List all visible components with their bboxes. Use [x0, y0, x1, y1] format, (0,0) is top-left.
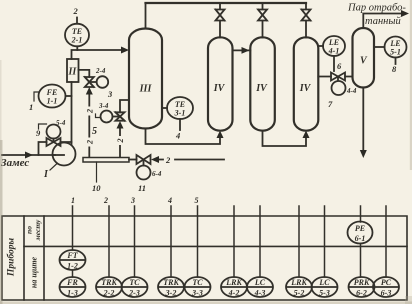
svg-text:TRK: TRK: [101, 278, 117, 287]
wire: tag bracket 1: [34, 92, 39, 101]
svg-text:2: 2: [73, 6, 79, 16]
signal stub 11: [385, 206, 387, 277]
vessel V: [353, 28, 375, 88]
column IV1: [208, 37, 233, 130]
instrument TC 3-3: [185, 277, 211, 297]
signal stub 6: [233, 206, 235, 277]
instrument bubbles in table: [60, 222, 400, 298]
svg-text:3: 3: [107, 89, 113, 99]
svg-text:IV: IV: [299, 83, 312, 94]
svg-text:2-3: 2-3: [128, 289, 140, 298]
instrument LRK 5-2: [286, 277, 312, 297]
instrument LC 5-3: [312, 277, 338, 297]
svg-text:месту: месту: [33, 219, 42, 241]
svg-text:4-1: 4-1: [328, 47, 340, 56]
svg-text:2: 2: [85, 109, 94, 114]
svg-text:1-1: 1-1: [47, 97, 58, 106]
svg-text:2: 2: [165, 155, 171, 165]
instrument FT 1-2: [60, 250, 86, 270]
svg-text:5-1: 5-1: [390, 48, 401, 57]
actuator 6-4: [143, 160, 145, 166]
temperature element TE 3-1: [162, 107, 167, 109]
svg-text:LRK: LRK: [290, 278, 307, 287]
actuator 3-4: [113, 116, 121, 118]
svg-text:IV: IV: [213, 83, 226, 94]
valve 5-4: [47, 138, 61, 146]
wire: steam supply line 2: [159, 159, 224, 161]
svg-text:Замес: Замес: [0, 157, 29, 169]
level element LE 4-1: [318, 45, 323, 47]
label rotated 2 on riser c: [117, 136, 124, 145]
svg-text:2: 2: [103, 196, 108, 205]
svg-text:PRK: PRK: [354, 278, 370, 287]
table frame: [2, 216, 407, 300]
svg-text:5-4: 5-4: [56, 119, 66, 127]
wire: IV2 bottom to IV3: [263, 131, 307, 146]
valve top 3: [302, 3, 311, 38]
svg-text:танный: танный: [365, 16, 401, 27]
level element LE 5-1: [374, 46, 385, 48]
svg-text:4-2: 4-2: [228, 289, 240, 298]
svg-text:3: 3: [130, 196, 135, 205]
node: feed arrow: [25, 152, 33, 159]
signal stub 5: [197, 206, 199, 277]
valve top 1: [216, 3, 225, 38]
svg-text:2-4: 2-4: [95, 67, 106, 75]
svg-text:Пар отрабо-: Пар отрабо-: [347, 3, 406, 14]
svg-text:TRK: TRK: [163, 278, 179, 287]
node: arrow into III: [121, 47, 129, 54]
signal stub 10: [360, 206, 362, 277]
wire: II top to column III: [72, 50, 125, 59]
svg-text:1: 1: [71, 196, 75, 205]
svg-text:TC: TC: [129, 278, 140, 287]
svg-text:LRK: LRK: [225, 278, 242, 287]
valve 2-4: [85, 77, 94, 87]
instrument FR 1-3: [60, 277, 86, 297]
actuator 4-4: [337, 77, 339, 81]
svg-text:на щите: на щите: [30, 256, 39, 288]
actuator 2-4: [89, 81, 96, 83]
svg-text:1: 1: [29, 102, 33, 112]
svg-text:4: 4: [175, 131, 180, 141]
wire: III top stem: [145, 3, 147, 29]
svg-text:5-2: 5-2: [294, 289, 305, 298]
svg-text:5: 5: [92, 126, 97, 137]
valve 6-4: [137, 155, 151, 164]
page edge shading: [0, 140, 3, 304]
svg-text:6-3: 6-3: [381, 289, 392, 298]
signal stub 8: [298, 206, 300, 277]
svg-text:TC: TC: [192, 278, 203, 287]
wire: IV3 to valve 4-4 to V: [318, 76, 352, 78]
wire: IV1 to IV2 arrow: [233, 49, 251, 51]
svg-text:3-1: 3-1: [174, 109, 186, 118]
valve 4-4: [331, 73, 345, 81]
wire: V top vapour out: [363, 14, 403, 29]
svg-text:11: 11: [138, 183, 146, 193]
wire: feed pipe Замес: [2, 154, 55, 156]
wire: steam riser to valve 2-4: [88, 95, 90, 158]
wire: III bottom to column IV1: [146, 129, 221, 145]
table divider col1: [23, 216, 25, 300]
instrument PRK 6-2: [349, 277, 375, 297]
svg-text:FT: FT: [66, 251, 78, 260]
svg-text:2-1: 2-1: [71, 36, 83, 45]
signal stub 2: [108, 206, 110, 277]
wire: tag bracket 9: [39, 124, 47, 129]
wire: leader to label 10: [96, 162, 98, 182]
steam manifold 10: [83, 158, 129, 163]
svg-text:10: 10: [92, 183, 101, 193]
svg-text:II: II: [68, 67, 78, 78]
svg-text:PE: PE: [355, 224, 365, 233]
wire: tag bracket 5: [96, 114, 101, 118]
pump I: [53, 143, 76, 166]
svg-text:PC: PC: [381, 278, 392, 287]
svg-text:6-4: 6-4: [152, 170, 162, 178]
svg-text:LC: LC: [318, 278, 330, 287]
svg-text:3-2: 3-2: [165, 289, 177, 298]
svg-text:4-4: 4-4: [346, 87, 357, 95]
instrument LC 4-3: [247, 277, 273, 297]
column IV3: [294, 37, 319, 130]
svg-text:3-3: 3-3: [191, 289, 203, 298]
signal stub 3: [134, 206, 136, 277]
svg-text:6-2: 6-2: [356, 289, 367, 298]
svg-text:5: 5: [195, 196, 199, 205]
wire: II right to valve 2-4: [79, 70, 90, 77]
valve 3-4: [116, 112, 125, 120]
instrument PE 6-1: [348, 222, 373, 244]
svg-text:4-3: 4-3: [254, 289, 266, 298]
valve top 2: [258, 3, 267, 38]
wire: V bottom outlet arrow: [362, 88, 364, 155]
signal stub 7: [259, 206, 261, 277]
svg-text:IV: IV: [255, 83, 268, 94]
svg-text:6-1: 6-1: [355, 234, 366, 243]
svg-text:Приборы: Приборы: [6, 238, 17, 278]
instrument PC 6-3: [373, 277, 399, 297]
instrument TRK 3-2: [158, 277, 184, 297]
temperature element TE 2-1: [76, 47, 78, 51]
wire: vapour header: [146, 2, 307, 4]
wire: pump leader to label I: [50, 164, 57, 171]
wire: steam riser to valve 3-4: [119, 128, 121, 157]
label rotated 2 on riser a: [86, 107, 93, 116]
wire: riser pump to heater II: [71, 82, 73, 145]
label rotated 2 on riser b: [86, 138, 93, 147]
svg-text:III: III: [139, 84, 153, 95]
instrument TC 2-3: [122, 277, 148, 297]
heater II: [67, 59, 79, 82]
wire: bypass line: [39, 142, 72, 155]
svg-text:2: 2: [85, 140, 94, 145]
signal stub 1: [72, 206, 74, 277]
column IV2: [250, 37, 274, 130]
svg-text:FR: FR: [66, 278, 78, 287]
table row divider: [24, 245, 407, 247]
actuator 5-4: [53, 139, 55, 143]
flow element FE 1-1: [66, 95, 72, 97]
signal stub 9: [324, 206, 326, 277]
svg-text:1-2: 1-2: [67, 262, 78, 271]
instrument TRK 2-2: [96, 277, 122, 297]
instrument LRK 4-2: [221, 277, 247, 297]
table divider col2: [43, 216, 45, 300]
svg-text:1-3: 1-3: [67, 289, 78, 298]
svg-text:2-2: 2-2: [103, 289, 115, 298]
wire: manifold to valve 6-4: [129, 159, 137, 161]
signal stub 4: [170, 206, 172, 277]
column III: [129, 29, 162, 129]
svg-text:3-4: 3-4: [98, 102, 109, 110]
svg-text:2: 2: [116, 139, 125, 144]
svg-text:4: 4: [167, 196, 172, 205]
wire: valve 3-4 to column III: [120, 100, 129, 112]
svg-text:LC: LC: [254, 278, 266, 287]
svg-text:5-3: 5-3: [319, 289, 330, 298]
